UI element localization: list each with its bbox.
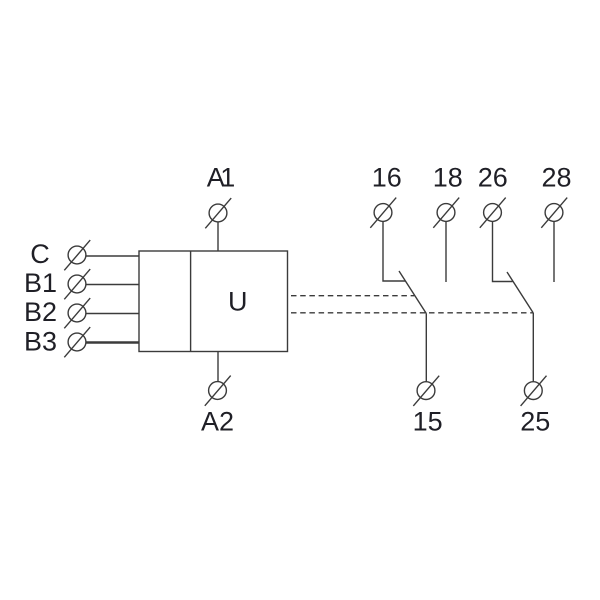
wire B2 to box — [86, 313, 139, 315]
svg-text:B3: B3 — [24, 327, 57, 357]
svg-text:B1: B1 — [24, 268, 57, 298]
terminal 26 — [480, 198, 506, 228]
box divider — [190, 251, 192, 352]
wire A1 to box — [217, 222, 219, 251]
svg-text:B2: B2 — [24, 297, 57, 327]
wire 16 down — [383, 221, 406, 281]
wire C to box — [86, 255, 139, 257]
control unit box U — [139, 251, 288, 352]
terminal A2 — [205, 376, 231, 406]
terminal 18 — [433, 198, 459, 228]
terminal 25 — [521, 376, 547, 406]
dashed mechanical link 1 — [291, 295, 414, 297]
wire 26 down — [493, 221, 513, 281]
svg-text:A2: A2 — [201, 406, 234, 436]
switch blade contact 15-16 — [399, 271, 426, 314]
svg-text:26: 26 — [478, 162, 508, 192]
terminal A1 — [205, 198, 231, 228]
terminal 16 — [370, 198, 396, 228]
wire B1 to box — [86, 284, 139, 286]
svg-text:18: 18 — [433, 162, 463, 192]
svg-text:U: U — [228, 286, 248, 316]
terminal 28 — [541, 198, 567, 228]
svg-text:C: C — [30, 239, 50, 269]
dashed mechanical link 2 — [291, 312, 533, 314]
terminal B3 — [64, 327, 90, 357]
svg-text:A1: A1 — [207, 162, 235, 192]
terminal B2 — [64, 298, 90, 328]
svg-text:25: 25 — [520, 406, 550, 436]
wire 18 down — [445, 221, 447, 282]
svg-text:15: 15 — [413, 406, 443, 436]
wire 28 down — [553, 221, 555, 282]
terminal C — [64, 240, 90, 270]
terminal 15 — [413, 376, 439, 406]
switch blade contact 25-26 — [507, 272, 533, 313]
wire B3 to box (bold) — [86, 341, 139, 344]
svg-text:28: 28 — [541, 162, 571, 192]
wire box to A2 — [217, 352, 219, 382]
wire blade to 15 — [425, 314, 427, 382]
terminal B1 — [64, 269, 90, 299]
wire blade to 25 — [532, 313, 534, 382]
svg-text:16: 16 — [372, 162, 402, 192]
